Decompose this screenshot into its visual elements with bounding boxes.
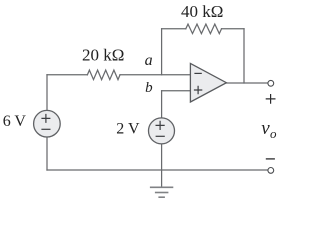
ground bbox=[150, 187, 173, 197]
svg-text:b: b bbox=[145, 80, 153, 96]
resistor R2 40 kΩ zigzag bbox=[186, 24, 222, 33]
svg-text:40 kΩ: 40 kΩ bbox=[181, 2, 223, 21]
wire node a vertical up to feedback bbox=[161, 29, 163, 75]
output terminal node - (bottom circle) bbox=[268, 168, 274, 174]
wire feedback top-left segment bbox=[162, 28, 186, 30]
resistor R1 20 kΩ zigzag bbox=[87, 70, 120, 80]
wire top-left horizontal segment to resistor R1 bbox=[47, 74, 87, 76]
svg-text:6 V: 6 V bbox=[3, 113, 27, 130]
wire bottom rail bbox=[47, 169, 268, 171]
wire node a horizontal segment to op-amp inverting input bbox=[120, 74, 190, 76]
output terminal node + (top circle) bbox=[268, 80, 274, 86]
voltage source V1 plus sign bbox=[41, 114, 50, 123]
wire from 2V source bottom through rail to ground bbox=[161, 144, 163, 188]
wire from 6V source bottom to bottom rail bbox=[46, 137, 48, 170]
terminal minus polarity mark bbox=[266, 158, 275, 160]
op-amp U1 body bbox=[190, 63, 226, 102]
voltage source V2 minus sign bbox=[156, 135, 165, 137]
wire node b vertical down to 2V source bbox=[161, 91, 163, 118]
wire node b horizontal to op-amp noninverting input bbox=[162, 90, 191, 92]
wire feedback top-right segment bbox=[222, 28, 245, 30]
op-amp U1 inverting input minus sign bbox=[194, 72, 201, 74]
voltage source V2 plus sign bbox=[156, 121, 165, 130]
voltage source V1 6V circle bbox=[34, 110, 61, 137]
wire left vertical from corner to 6V source bbox=[46, 75, 48, 111]
op-amp U1 noninverting input plus sign bbox=[194, 86, 202, 94]
svg-text:a: a bbox=[145, 52, 153, 69]
svg-text:v: v bbox=[261, 118, 270, 139]
wire op-amp output to terminal bbox=[226, 82, 268, 84]
svg-text:2 V: 2 V bbox=[116, 121, 140, 138]
svg-text:20 kΩ: 20 kΩ bbox=[82, 45, 124, 64]
terminal plus polarity mark bbox=[266, 94, 276, 104]
voltage source V1 minus sign bbox=[41, 128, 50, 130]
svg-text:o: o bbox=[270, 126, 277, 141]
wire feedback right vertical down to output node bbox=[243, 29, 245, 83]
voltage source V2 2V circle bbox=[149, 118, 175, 144]
